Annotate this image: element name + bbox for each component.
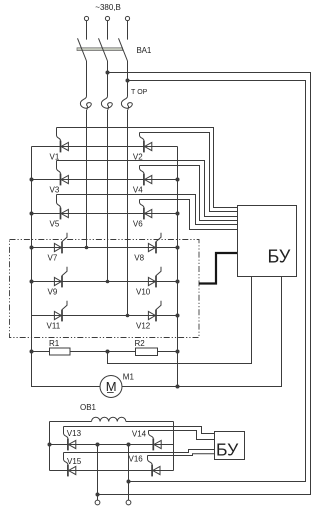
control unit BU field box <box>215 432 245 460</box>
wire gate V16 to BU2 <box>148 454 215 456</box>
label V9 <box>48 287 58 296</box>
terminal phase C <box>125 16 129 20</box>
node left rail row3 <box>30 212 34 216</box>
wire AC1 vertical <box>97 445 99 501</box>
thyristor V11 <box>54 310 62 322</box>
wire BU output 2 <box>122 277 282 387</box>
wire phase C to right inner rail <box>128 81 306 482</box>
label BU main <box>268 247 291 267</box>
label V13 <box>67 429 82 438</box>
wire phase A terminal to breaker <box>86 21 88 40</box>
node AC1 row A <box>96 443 100 447</box>
thyristor V2 <box>144 141 152 153</box>
thyristor V4 <box>144 174 152 186</box>
svg-text:V11: V11 <box>47 321 61 330</box>
current transformer TOP phase C <box>121 96 132 110</box>
svg-text:БУ: БУ <box>216 439 239 459</box>
breaker BA1 pole C blade <box>119 38 128 61</box>
left rail <box>32 147 101 387</box>
label V5 <box>50 219 60 228</box>
wire phase B to right outer rail <box>98 73 311 495</box>
label M1 <box>123 373 135 382</box>
node right rail row2 <box>176 178 180 182</box>
label V3 <box>50 185 60 194</box>
wire row3 <box>32 213 178 215</box>
wire gate V15 to BU2 <box>64 450 215 453</box>
svg-text:V14: V14 <box>132 430 147 439</box>
label V6 <box>133 219 143 228</box>
wire bridge right edge <box>173 422 175 471</box>
wire phase B breaker to CT <box>107 61 109 96</box>
node phase C at row <box>126 314 130 318</box>
thyristor V13 <box>68 439 76 451</box>
thyristor V5 <box>61 208 69 220</box>
label BA1 <box>137 46 152 55</box>
wire phase A down to bridge row <box>86 110 88 248</box>
wire gate V5 to BU <box>57 195 238 225</box>
node right rail motor row <box>176 385 180 389</box>
node left rail row4 <box>30 246 34 250</box>
wire row1 <box>32 146 178 148</box>
label V12 <box>136 321 151 330</box>
wire phase B down to bridge row <box>107 110 109 282</box>
resistor R1 <box>50 348 71 355</box>
label V1 <box>50 152 60 161</box>
svg-text:Т ОР: Т ОР <box>131 89 148 96</box>
wire row4 <box>32 247 178 249</box>
svg-text:V15: V15 <box>67 457 82 466</box>
svg-text:V5: V5 <box>50 219 60 228</box>
wire gate V6 to BU <box>140 200 238 230</box>
svg-text:R1: R1 <box>49 339 60 348</box>
svg-text:V13: V13 <box>67 429 82 438</box>
svg-text:БУ: БУ <box>268 247 291 267</box>
node left rail row2 <box>30 178 34 182</box>
current transformer TOP phase B <box>101 96 112 110</box>
wire gate V3 to BU <box>57 161 238 217</box>
label V7 <box>48 253 58 262</box>
thyristor V6 <box>144 208 152 220</box>
svg-text:V4: V4 <box>133 185 143 194</box>
wire bridge row B <box>50 470 174 472</box>
label V10 <box>136 287 151 296</box>
wire bridge top right <box>126 421 174 423</box>
wire R row <box>32 351 178 353</box>
svg-text:M1: M1 <box>123 373 135 382</box>
node right rail row5 <box>176 280 180 284</box>
node right rail row6 <box>176 314 180 318</box>
wire phase C terminal to breaker <box>127 21 129 40</box>
thyristor V1 <box>61 141 69 153</box>
node R midpoint <box>106 350 110 354</box>
node AC2 row A <box>127 443 131 447</box>
label V4 <box>133 185 143 194</box>
node phase A at row <box>85 246 89 250</box>
thyristor V7 <box>54 242 62 254</box>
wire AC2 vertical <box>128 445 130 501</box>
thyristor V12 <box>148 310 156 322</box>
label V11 <box>47 321 61 330</box>
current transformer TOP phase A <box>80 96 91 110</box>
circuit breaker BA1 tie bar <box>77 48 123 51</box>
wire bridge left edge <box>49 422 51 471</box>
label V2 <box>133 152 143 161</box>
svg-text:V12: V12 <box>136 321 151 330</box>
thyristor V10 <box>148 276 156 288</box>
terminal phase B <box>105 16 109 20</box>
thyristor V3 <box>61 174 69 186</box>
label V16 <box>129 455 144 464</box>
node left rail R row <box>30 350 34 354</box>
node AC1 rail <box>96 493 100 497</box>
wire row6 <box>32 315 178 317</box>
svg-text:ОВ1: ОВ1 <box>80 403 97 412</box>
motor M1 <box>100 376 122 398</box>
wire gate V13 to BU2 <box>64 427 215 434</box>
thyristor V16 <box>152 465 160 477</box>
wire row5 <box>32 281 178 283</box>
svg-text:V16: V16 <box>129 455 144 464</box>
thick gate bundle wire to BU <box>199 253 238 284</box>
label R2 <box>135 339 146 348</box>
svg-text:V6: V6 <box>133 219 143 228</box>
node bridge left row A <box>48 443 52 447</box>
wire gate V2 to BU <box>140 133 238 212</box>
resistor R2 <box>136 348 158 356</box>
wire row2 <box>32 179 178 181</box>
label V8 <box>134 253 144 262</box>
label OB1 <box>80 403 97 412</box>
wire phase B terminal to breaker <box>107 21 109 40</box>
wire bridge top left <box>50 421 92 423</box>
control unit BU main box <box>238 206 297 277</box>
svg-text:V7: V7 <box>48 253 58 262</box>
thyristor V14 <box>153 439 161 451</box>
svg-text:~380,В: ~380,В <box>95 3 121 12</box>
label V15 <box>67 457 82 466</box>
svg-text:ВА1: ВА1 <box>137 46 152 55</box>
label BU field <box>216 439 239 459</box>
wire bridge row A <box>50 444 174 446</box>
label V14 <box>132 430 147 439</box>
node right rail row4 <box>176 246 180 250</box>
terminal AC2 <box>126 500 131 505</box>
label R1 <box>49 339 60 348</box>
supply label ~380,В <box>95 3 121 12</box>
terminal phase A <box>84 16 88 20</box>
wire phase C down to bridge row <box>127 110 129 316</box>
wire gate V14 to BU2 <box>149 431 215 440</box>
wire phase A breaker to CT <box>86 61 88 96</box>
svg-text:V3: V3 <box>50 185 60 194</box>
node phase C tap <box>126 79 130 83</box>
wire gate V1 to BU <box>57 128 238 208</box>
node phase B tap <box>106 71 110 75</box>
node right rail row3 <box>176 212 180 216</box>
node right rail R row <box>176 350 180 354</box>
breaker BA1 pole B blade <box>99 38 108 61</box>
wire BU output 1 <box>108 277 252 364</box>
thyristor V8 <box>148 242 156 254</box>
svg-text:М: М <box>106 379 117 394</box>
thyristor V15 <box>68 465 76 477</box>
field winding OB1 coil <box>92 417 126 421</box>
svg-text:V9: V9 <box>48 287 58 296</box>
thyristor V9 <box>54 276 62 288</box>
svg-text:V10: V10 <box>136 287 151 296</box>
node left rail row5 <box>30 280 34 284</box>
label T OP <box>131 89 148 96</box>
breaker BA1 pole A blade <box>78 38 87 61</box>
node phase B at row <box>106 280 110 284</box>
terminal AC1 <box>95 500 100 505</box>
node AC2 rail <box>127 480 131 484</box>
wire gate V4 to BU <box>140 166 238 221</box>
wire phase C breaker to CT <box>127 61 129 96</box>
svg-text:R2: R2 <box>135 339 146 348</box>
reverse group dash-dot box <box>10 240 200 338</box>
svg-text:V8: V8 <box>134 253 144 262</box>
right column rail <box>177 147 179 387</box>
